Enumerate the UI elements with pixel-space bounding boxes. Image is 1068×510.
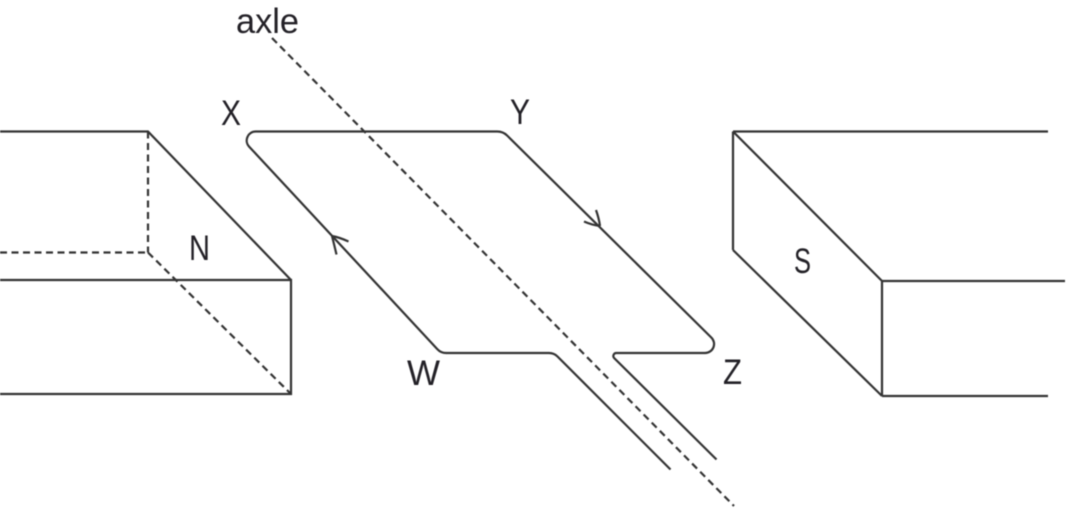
svg-text:S: S bbox=[794, 242, 811, 281]
svg-text:N: N bbox=[189, 229, 210, 268]
svg-text:X: X bbox=[221, 94, 241, 133]
svg-text:W: W bbox=[407, 354, 440, 393]
svg-text:Z: Z bbox=[723, 353, 742, 392]
svg-text:Y: Y bbox=[510, 93, 530, 132]
svg-text:axle: axle bbox=[236, 2, 299, 41]
